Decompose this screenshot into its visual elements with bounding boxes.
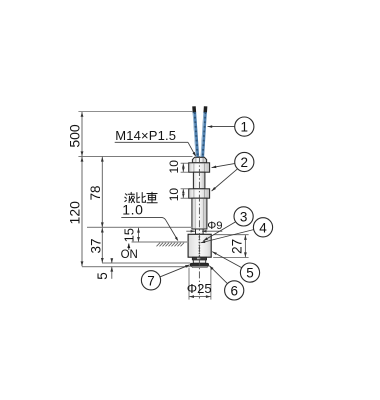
leader to reed switch [203,222,235,241]
leader to float [212,252,242,269]
gland cap at top of stem [192,157,206,163]
svg-text:4: 4 [259,220,267,235]
dimension 78 stem length [101,157,103,228]
balloon 3 reed switch [234,207,253,226]
liquid level line ON [132,241,189,243]
balloon 4 magnet [253,218,272,237]
reed switch hidden line inside float [198,236,200,256]
extension line washer top [102,262,190,264]
float bottom recess band [192,257,206,260]
svg-text:10: 10 [167,160,181,174]
centerline of assembly [198,156,200,298]
reference line mounting face [87,226,192,228]
balloon 5 float [240,263,259,282]
ON switch direction arrow [128,244,130,250]
retaining washer / stopper [190,263,208,266]
balloon 6 washer [225,281,244,300]
leader to washer right [209,266,227,284]
lead wire left (blue cable) [194,112,197,158]
extension line bottom of float assy [82,266,190,268]
threaded stem between nuts M14 [193,172,205,189]
liquid surface hatching [157,243,185,247]
lead wire right (blue cable) [202,112,205,158]
svg-text:Φ25: Φ25 [187,281,212,296]
leader for M14xP1.5 [115,141,188,143]
svg-text:2: 2 [241,155,249,170]
dimension 120 overall length [81,157,83,267]
svg-text:6: 6 [230,284,238,299]
washer bottom plate [192,266,207,267]
svg-text:37: 37 [88,238,103,253]
dimension 10 lower nut height [181,188,189,190]
leader to upper nut [212,163,236,167]
svg-text:7: 7 [147,273,155,288]
svg-text:Φ9: Φ9 [207,220,222,232]
label specific gravity 1.0 (kanji) [125,192,157,202]
stem lower tube [192,198,207,229]
svg-text:5: 5 [95,272,110,280]
extension line at wire tip (500 top) [78,111,192,113]
dimension 5 washer height [111,258,113,263]
balloon 2 hex nuts [235,152,254,171]
svg-text:1: 1 [241,120,249,135]
svg-text:ON: ON [121,249,138,261]
svg-text:3: 3 [240,210,248,225]
dimension 500 wire length [81,112,83,156]
leader to stopper left [160,265,190,277]
balloon 7 stopper [141,271,160,290]
svg-text:78: 78 [88,185,103,200]
extension lines float diameter [188,268,190,300]
leader to magnet [201,230,254,243]
svg-text:1.0: 1.0 [122,201,143,217]
svg-text:27: 27 [230,239,245,254]
svg-text:M14×P1.5: M14×P1.5 [115,128,176,143]
leader for specific gravity to liquid level [121,217,177,240]
lead wire right (black tip) [203,106,207,112]
balloon 1 lead wire [235,117,254,136]
extension line at thread top [78,155,192,157]
hex nut upper N1 [189,163,210,172]
dimension 27 float height [244,235,246,257]
dimension dia 9 rod [186,230,195,232]
dimension 37 float travel [101,228,103,263]
guide rod neck dia 9 [196,229,204,234]
dimension 15 ON level depth [138,228,140,242]
leader to lead wire [208,126,235,128]
lead wire left (black tip) [192,106,196,112]
svg-text:10: 10 [167,188,181,202]
svg-text:5: 5 [246,266,254,281]
leader to lower nut [212,169,238,191]
rod exposed below float [193,260,205,263]
extension lines float height [213,234,248,236]
dimension dia 25 float diameter [189,296,211,298]
dimension 10 upper nut height [181,162,189,164]
svg-text:500: 500 [66,124,82,148]
float body [188,234,211,257]
hex nut lower N2 [189,189,210,198]
svg-text:120: 120 [66,201,82,225]
svg-text:15: 15 [122,228,137,242]
